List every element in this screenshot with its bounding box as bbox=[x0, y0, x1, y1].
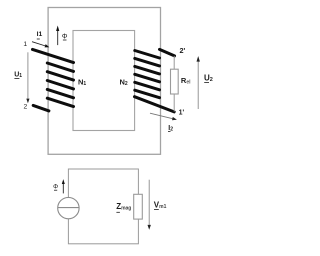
svg-text:I1: I1 bbox=[37, 31, 43, 38]
wire turn 6 bbox=[47, 98, 73, 106]
wire lead to terminal 2 bbox=[33, 105, 49, 111]
svg-text:2: 2 bbox=[24, 104, 28, 111]
wire turn 4 bbox=[135, 74, 160, 82]
voltage arrow Vm1 (pointing down) bbox=[148, 180, 151, 230]
svg-text:2': 2' bbox=[180, 46, 186, 55]
svg-text:1': 1' bbox=[179, 110, 185, 117]
winding N1 (primary) bbox=[33, 49, 74, 111]
wire turn 3 bbox=[47, 72, 73, 80]
wire turn 2 bbox=[47, 63, 73, 71]
svg-text:U1: U1 bbox=[14, 72, 22, 80]
wire from terminal 2' to resistor bbox=[173, 56, 175, 69]
current arrow I1 bbox=[32, 42, 49, 48]
wire turn 3 bbox=[135, 66, 160, 74]
resistor Rel box bbox=[171, 69, 179, 94]
wire lead to terminal 2' bbox=[160, 49, 175, 56]
transformer core inner window rectangle bbox=[73, 31, 135, 131]
winding N2 (secondary) bbox=[135, 49, 175, 112]
current arrow I2 bbox=[150, 113, 177, 120]
wire turn 5 bbox=[47, 89, 73, 97]
svg-text:Φ: Φ bbox=[62, 34, 68, 41]
wire turn 1 (lead from terminal 1) bbox=[33, 49, 74, 62]
wire turn 6 bbox=[135, 90, 160, 98]
voltage arrow U1 (pointing down) bbox=[26, 52, 29, 103]
svg-text:1: 1 bbox=[23, 41, 27, 48]
flux arrow phi (bottom, pointing up) bbox=[62, 179, 65, 193]
wire from resistor to terminal 1' bbox=[173, 94, 175, 112]
wire turn 4 bbox=[47, 81, 73, 89]
wire turn 5 bbox=[135, 82, 160, 90]
wire turn 1 bbox=[135, 51, 160, 59]
wire turn 2 bbox=[135, 58, 160, 66]
circuit loop wire bbox=[68, 169, 138, 244]
flux source (circle with bar) bbox=[58, 197, 79, 218]
wire lead to terminal 1' bbox=[135, 97, 175, 112]
impedance Zmag box bbox=[134, 194, 143, 219]
transformer core outer rectangle bbox=[48, 8, 160, 155]
svg-text:Φ: Φ bbox=[53, 184, 58, 191]
flux arrow phi (top, pointing up) bbox=[56, 26, 59, 46]
voltage arrow U2 (pointing up) bbox=[197, 56, 200, 109]
